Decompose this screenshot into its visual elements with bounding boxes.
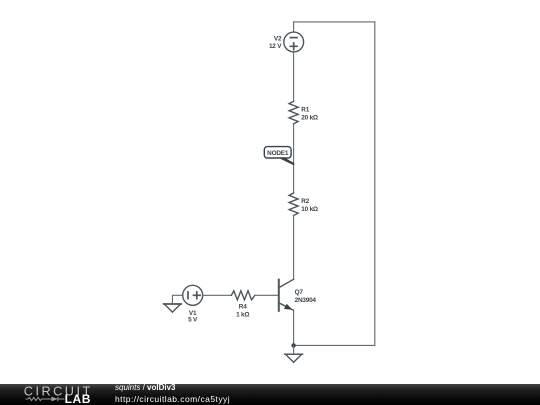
svg-text:LAB: LAB	[65, 392, 91, 405]
label V1 value	[188, 310, 198, 323]
resistor R4	[231, 291, 255, 300]
label R4 value	[236, 304, 249, 319]
svg-text:20 kΩ: 20 kΩ	[301, 115, 318, 122]
footer bar	[0, 384, 540, 405]
resistor R2	[289, 193, 298, 216]
ground symbol near V1	[164, 295, 183, 312]
svg-text:12 V: 12 V	[269, 43, 282, 50]
voltage source V1	[183, 285, 203, 305]
voltage source V2	[284, 32, 304, 52]
wire emitter vertical to bottom node	[293, 310, 295, 345]
wire stub from node to ground	[293, 345, 295, 354]
resistor R1	[289, 101, 298, 124]
wire bottom horizontal from emitter node to right loop	[294, 344, 375, 346]
label Q7 value	[295, 289, 317, 304]
wire top horizontal from V2 to right loop	[294, 21, 375, 23]
wire R1 to NODE1/R2	[293, 124, 295, 193]
node flag NODE1	[264, 147, 294, 166]
svg-text:V2: V2	[274, 35, 282, 42]
footer title text line 1	[115, 383, 176, 393]
svg-text:5 V: 5 V	[188, 316, 198, 323]
svg-text:R4: R4	[239, 304, 247, 311]
wire V2 top stub	[293, 22, 295, 32]
wire R2 to collector	[293, 216, 295, 280]
transistor Q7 (2N3904 NPN)	[279, 279, 294, 311]
ground symbol bottom	[285, 354, 303, 362]
label R2 value	[301, 198, 318, 213]
footer url text line 2	[115, 394, 230, 404]
CircuitLab logo	[0, 384, 100, 405]
svg-text:NODE1: NODE1	[267, 150, 289, 157]
svg-text:2N3904: 2N3904	[295, 297, 317, 304]
svg-text:10 kΩ: 10 kΩ	[301, 206, 318, 213]
label V2 value	[269, 35, 282, 50]
wire R4 to base	[255, 294, 278, 296]
wire right vertical loop	[374, 22, 376, 346]
svg-text:1 kΩ: 1 kΩ	[236, 312, 249, 319]
wire V2 bottom to R1	[293, 52, 295, 101]
wire V1 to R4	[203, 294, 232, 296]
label R1 value	[301, 107, 318, 122]
svg-text:R1: R1	[301, 107, 309, 114]
svg-text:Q7: Q7	[295, 289, 304, 296]
svg-text:R2: R2	[301, 198, 309, 205]
junction node dot at emitter/ground/bottom wire	[291, 343, 295, 347]
